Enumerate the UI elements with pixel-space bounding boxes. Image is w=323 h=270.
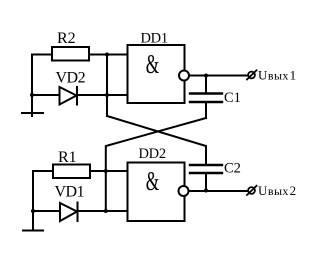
wire C1 upper lead	[205, 76, 207, 94]
wire VD1 cathode to DD2 input 2	[78, 210, 128, 212]
resistor R2	[52, 47, 89, 61]
wire C1 lower lead to bend	[205, 102, 207, 118]
wire R1 right to DD2 input 1	[90, 170, 128, 172]
svg-text:C2: C2	[224, 160, 241, 176]
node R1 junction	[104, 169, 108, 173]
node C1 top junction	[204, 74, 208, 78]
ground	[23, 211, 43, 231]
wire VD2 cathode to DD1 input 2	[77, 94, 128, 96]
svg-text:DD1: DD1	[141, 30, 168, 46]
terminal Uvyh1	[246, 70, 257, 81]
svg-text:&: &	[146, 49, 160, 79]
capacitor C2	[190, 165, 222, 173]
wire VD1 anode	[33, 210, 60, 212]
node C2 bottom junction	[204, 189, 208, 193]
resistor R1	[53, 165, 90, 179]
op-amp U2: NAND gate DD2 body	[128, 163, 185, 222]
ground	[22, 95, 43, 116]
node VD2 cathode junction	[105, 93, 109, 97]
svg-text:C1: C1	[224, 90, 241, 106]
wire DD1 output	[190, 75, 247, 77]
diode VD1	[60, 203, 78, 222]
terminal Uvyh2	[246, 185, 257, 196]
wire cross-coupling DD1 inputs to C2	[107, 116, 206, 165]
wire DD1 input tie vertical	[106, 55, 108, 117]
svg-text:Uвых1: Uвых1	[258, 67, 296, 82]
op-amp U1: NAND gate DD1 body	[128, 45, 185, 103]
wire C2 lower lead	[205, 173, 207, 191]
DD1 output inversion circle	[179, 71, 189, 81]
node VD1 anode junction	[31, 209, 35, 213]
capacitor C1	[190, 94, 222, 103]
wire DD2 output	[190, 190, 248, 192]
node VD2 anode junction	[30, 93, 34, 97]
node VD1 cathode junction	[104, 209, 108, 213]
svg-text:DD2: DD2	[139, 146, 166, 162]
DD2 output inversion circle	[179, 186, 189, 196]
wire cross-coupling C1 to DD2 inputs	[106, 118, 206, 211]
wire R2 left	[32, 55, 52, 96]
svg-text:R2: R2	[57, 30, 76, 47]
svg-text:Uвых2: Uвых2	[258, 183, 296, 198]
wire R1 left	[33, 171, 53, 211]
diode VD2	[60, 87, 78, 105]
svg-text:VD1: VD1	[55, 184, 85, 201]
node R2-feedback junction	[105, 53, 109, 57]
svg-text:VD2: VD2	[56, 70, 86, 87]
wire VD2 anode	[32, 94, 60, 96]
svg-text:R1: R1	[58, 149, 77, 166]
svg-text:&: &	[146, 166, 160, 196]
wire R2 right to DD1 input 1	[89, 54, 128, 56]
